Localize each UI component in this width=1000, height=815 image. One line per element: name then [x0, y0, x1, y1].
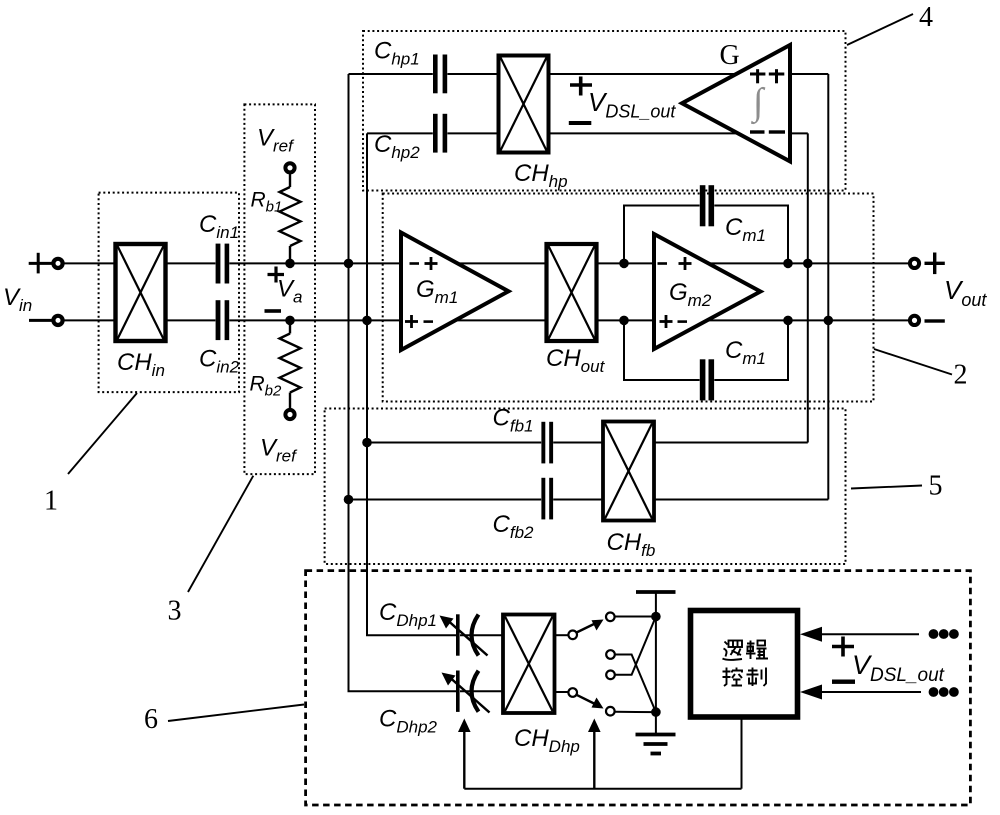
- leader line 4: [847, 14, 913, 45]
- wire vertical left riser B (x=367): [367, 133, 456, 635]
- wire vertical right riser D (x=828.3): [827, 74, 829, 500]
- dots ellipsis bottom: [929, 687, 959, 697]
- sign minus at Va: [265, 309, 282, 313]
- capacitor CDhp1 variable: [440, 614, 504, 655]
- chopper CHout: [547, 244, 597, 341]
- node dot top wire at riser C: [803, 259, 813, 269]
- switch S1 pole: [568, 631, 577, 640]
- node dot bottom wire at Cm1 loop left: [619, 316, 629, 326]
- wire rail vertical: [655, 592, 657, 734]
- wire Chp1 row: [349, 73, 433, 75]
- node dot bottom wire at riser D: [824, 316, 834, 326]
- sign plus at VDSL_out bottom: [832, 637, 854, 657]
- svg-text:3: 3: [168, 596, 182, 627]
- logic text ji (辑): [746, 641, 768, 660]
- capacitor Chp2: [433, 114, 447, 153]
- op-amp Gm1: [401, 233, 509, 351]
- dots ellipsis top: [929, 629, 959, 639]
- switch throw mid bottom: [606, 671, 615, 680]
- svg-text:5: 5: [929, 471, 943, 502]
- capacitor Cin1: [216, 244, 230, 284]
- op-amp G: [682, 45, 790, 161]
- switch S2 arrow: [577, 695, 595, 704]
- sign plus at Vin: [29, 253, 52, 274]
- logic text zhi (制): [747, 668, 767, 687]
- dashed box 6: [306, 571, 971, 805]
- dotted box 3: [244, 104, 315, 474]
- wire Cm1 bottom loop: [624, 320, 700, 380]
- wire CHDhp to switch top: [555, 634, 569, 636]
- switch throw mid top: [606, 650, 615, 659]
- logic control block U1: [691, 611, 798, 718]
- dotted box 1: [99, 193, 239, 393]
- switch S1 arrow: [577, 624, 595, 633]
- capacitor CDhp2 variable: [442, 671, 504, 713]
- wire Chp2 row: [367, 132, 433, 134]
- leader line 2: [874, 349, 952, 375]
- dotted box 5: [325, 409, 846, 565]
- capacitor Cfb1: [541, 422, 553, 464]
- sign minus at VDSL_out top: [569, 121, 592, 125]
- arrow into logic bottom: [800, 685, 822, 700]
- arrow into logic top: [800, 627, 822, 642]
- svg-text:G: G: [720, 40, 740, 71]
- terminal Vin plus: [53, 259, 62, 268]
- terminal Vout plus: [910, 259, 919, 268]
- wire top input rail: [64, 262, 216, 264]
- wire throw2 to rail: [615, 711, 656, 713]
- node dot top wire at riser A: [344, 259, 354, 269]
- sign plus at VDSL_out top: [570, 77, 592, 96]
- svg-text:6: 6: [144, 704, 158, 735]
- wire VDSL sense bottom: [819, 691, 921, 693]
- svg-text:1: 1: [44, 486, 58, 517]
- ground: [636, 735, 676, 754]
- sign plus at Va: [268, 267, 285, 283]
- logic text kong (控): [723, 668, 743, 687]
- chopper CHfb: [603, 422, 654, 521]
- capacitor Cfb2: [541, 478, 553, 520]
- terminal Vref bottom: [285, 410, 294, 419]
- leader line 1: [68, 393, 137, 474]
- wire bottom input rail: [64, 319, 216, 321]
- wire CHDhp to switch bottom: [555, 691, 569, 693]
- wire VDSL sense top: [819, 633, 919, 635]
- resistor Rb1: [280, 174, 301, 264]
- node dot rail top: [651, 612, 661, 622]
- capacitor Cm1 top: [700, 185, 714, 226]
- logic text luo (逻): [723, 641, 743, 660]
- node dot bottom wire at Cm1 loop right: [783, 316, 793, 326]
- wire control riser from logic: [741, 720, 743, 789]
- supply T-bar: [636, 590, 676, 594]
- wire vertical left riser A (x=348.5): [349, 74, 457, 691]
- control arrow to CHDhp: [593, 729, 595, 789]
- chopper CHin: [116, 244, 166, 341]
- svg-text:2: 2: [954, 360, 968, 391]
- switch S2 pole: [568, 688, 577, 697]
- wire throw1 to rail: [615, 616, 656, 618]
- capacitor Cm1 bottom: [700, 359, 714, 400]
- leader line 5: [851, 486, 922, 489]
- wire control bus horizontal: [464, 788, 741, 790]
- terminal Vref top: [285, 163, 294, 172]
- node dot Cfb1 row at riser B: [362, 438, 372, 448]
- control arrow to CDhp: [463, 729, 465, 789]
- wire vertical right riser C (x=807.8): [807, 133, 809, 442]
- terminal Vout minus: [910, 316, 919, 325]
- capacitor Chp1: [433, 55, 447, 94]
- leader line 3: [188, 476, 253, 592]
- node dot rail bottom: [651, 707, 661, 717]
- dotted box 2: [383, 194, 874, 402]
- chopper CHDhp: [503, 615, 555, 714]
- terminal Vin minus: [53, 316, 62, 325]
- node dot top wire at Cm1 loop right: [783, 259, 793, 269]
- wire cross mid-top to ground node: [615, 655, 656, 713]
- node dot Cfb2 row at riser A: [344, 495, 354, 505]
- wire Cm1 top loop: [624, 206, 700, 264]
- node dot bottom wire at riser B: [362, 316, 372, 326]
- wire G amp right stubs: [789, 73, 828, 75]
- wire Cfb2 row: [349, 499, 542, 501]
- capacitor Cin2: [216, 300, 230, 340]
- switch S2 throw: [606, 707, 615, 716]
- op-amp Gm2: [654, 234, 761, 349]
- node dot top wire at Rb1: [285, 259, 295, 269]
- sign minus at VDSL_out bottom: [832, 680, 855, 684]
- wire cross mid-bottom to vdd node: [615, 617, 656, 675]
- node dot top wire at Cm1 loop left: [619, 259, 629, 269]
- leader line 6: [168, 705, 304, 722]
- sign plus at Vout: [925, 253, 945, 275]
- switch S1 throw: [606, 613, 615, 622]
- resistor Rb2: [280, 320, 301, 409]
- svg-text:4: 4: [919, 2, 933, 33]
- wire Cfb1 row: [367, 442, 541, 444]
- chopper CHhp: [499, 56, 549, 153]
- dotted box 4: [363, 31, 846, 191]
- node dot bottom wire at Rb2: [285, 316, 295, 326]
- sign minus at Vout: [925, 319, 945, 322]
